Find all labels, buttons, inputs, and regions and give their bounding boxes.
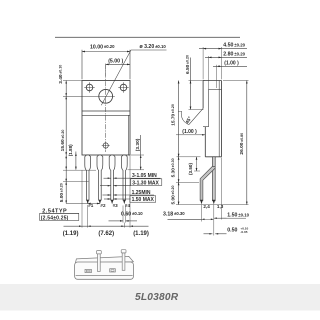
svg-text:(1.00 ): (1.00 ): [182, 129, 197, 135]
side view: straight lead extension line: [213, 204, 215, 235]
front view: tab/body junction line: [82, 114, 130, 116]
dimension (1.00) top: [216, 65, 218, 88]
side view: front face: [221, 81, 223, 157]
side view: bent lead (pins 2,4): [200, 166, 215, 200]
svg-text:5.00 ±0.20: 5.00 ±0.20: [59, 183, 65, 202]
svg-text:5L0380R: 5L0380R: [135, 292, 179, 303]
chamfer extension line: [178, 111, 182, 113]
front view: bottom locator circle: [103, 143, 108, 148]
svg-text:3.40 ±0.10: 3.40 ±0.10: [58, 65, 64, 84]
svg-text:3.18 ±0.30: 3.18 ±0.30: [163, 211, 185, 217]
svg-text:(3.50): (3.50): [188, 163, 193, 175]
bottom isometric view: pin A cap: [97, 251, 102, 254]
svg-text:(1.19): (1.19): [133, 231, 149, 237]
svg-text:(1.00 ): (1.00 ): [224, 61, 239, 67]
dimension 3.40 +-0.10 (top to hole center): [63, 80, 82, 82]
dimension 6.50 +-0.20 (top to step): [189, 80, 205, 82]
bottom isometric view: bottom lip line: [76, 275, 133, 277]
svg-text:2.54TYP: 2.54TYP: [42, 209, 67, 215]
svg-text:4.50 ±0.20: 4.50 ±0.20: [223, 43, 245, 49]
front view: center mounting hole: [99, 89, 113, 103]
side view: bottom edge: [205, 156, 221, 158]
lead pin 3 (front view): [109, 155, 115, 200]
dimension 2.54TYP / (2.54+-0.25) boxed lead pitch: [66, 203, 100, 205]
dimension 1.50 MAX (boxed): [104, 198, 111, 200]
svg-text:#2: #2: [100, 203, 106, 208]
svg-text:2.80 ±0.20: 2.80 ±0.20: [223, 51, 245, 57]
front view: hole horizontal centerline / extension: [63, 95, 115, 97]
svg-text:0.50: 0.50: [227, 228, 237, 234]
svg-text:3-1.05 MIN: 3-1.05 MIN: [132, 173, 157, 179]
lead pin 2 (front view): [97, 155, 103, 200]
dimension 10.00 +-0.20 (tab width): [81, 50, 83, 80]
bottom isometric view: recess 1: [85, 269, 91, 272]
svg-text:15.60 ±0.20: 15.60 ±0.20: [60, 130, 66, 152]
front view: tab bottom line: [82, 110, 130, 112]
front view: right mounting hole: [120, 84, 127, 91]
bottom isometric view: pin B cap: [121, 250, 126, 253]
bottom isometric view: pin A stem: [98, 254, 101, 272]
dimension (5.00) (hole center to edge): [105, 64, 107, 77]
side view: back face upper: [202, 81, 204, 109]
svg-text:15.70 ±0.20: 15.70 ±0.20: [170, 104, 176, 126]
side view: straight lead (pins 1,3): [212, 157, 215, 201]
svg-text:(2.54±0.25): (2.54±0.25): [41, 216, 69, 222]
lead pin 1 (front view): [85, 155, 91, 200]
side view: inner back edge: [208, 90, 210, 127]
svg-text:0.60 ±0.10: 0.60 ±0.10: [121, 211, 143, 217]
bottom isometric view: top face: [75, 256, 133, 262]
side view: inner front line: [218, 81, 220, 157]
side view: back face lower: [204, 127, 206, 157]
svg-text:6.50 ±0.20: 6.50 ±0.20: [185, 55, 191, 74]
svg-text:ø 3.20 ±0.10: ø 3.20 ±0.10: [140, 44, 167, 50]
svg-text:5.30 ±0.30: 5.30 ±0.30: [170, 158, 176, 177]
bottom isometric view: body slab: [75, 262, 134, 279]
side view: chamfer foot line: [203, 126, 209, 128]
bottom chained dimensions (1.19)(7.62)(1.19): [81, 170, 83, 227]
dimension 1.25MIN: [103, 194, 111, 196]
dimension 26.00 +-0.80 (overall height): [223, 80, 249, 82]
front view: package outline: [82, 81, 130, 156]
side view: step line: [209, 89, 222, 91]
svg-text:(7.62): (7.62): [98, 231, 114, 237]
svg-text:3-1.30 MAX: 3-1.30 MAX: [132, 180, 159, 186]
svg-text:(1.19): (1.19): [63, 231, 79, 237]
dimension 3-1.30 MAX (boxed): [100, 185, 111, 187]
svg-text:-0.05: -0.05: [240, 230, 247, 234]
front view: body inner right edge: [127, 115, 129, 155]
bottom isometric view: recess 2: [110, 269, 116, 272]
svg-text:45°: 45°: [185, 116, 194, 125]
svg-text:5.00 ±0.20: 5.00 ±0.20: [170, 185, 176, 204]
svg-text:1.50 MAX: 1.50 MAX: [132, 197, 155, 203]
side view: 45 deg chamfer line: [189, 108, 203, 124]
dimension 0.60 +-0.10 (lead tip width): [122, 206, 124, 223]
side view: bent lead extension line: [201, 204, 203, 221]
lead pin 4 (front view): [121, 155, 127, 200]
footer band: [0, 284, 320, 311]
svg-text:(5.00 ): (5.00 ): [108, 58, 123, 64]
front view: vertical centerline: [105, 64, 107, 152]
svg-text:1.50 ±0.10: 1.50 ±0.10: [227, 213, 249, 219]
dimension diameter 3.20 +-0.10 with leader: [101, 50, 131, 105]
side view: top edge: [203, 80, 221, 82]
front view: left mounting hole: [86, 84, 93, 91]
bottom isometric view: pin B stem: [122, 253, 125, 270]
svg-text:#3: #3: [113, 203, 119, 208]
45 degree chamfer annotation: [181, 111, 189, 124]
dimension 3-1.05 MIN (lead width): [104, 177, 111, 179]
svg-text:(1.88): (1.88): [68, 144, 73, 156]
dimension 4.50 +-0.20 (body thickness): [202, 47, 204, 79]
svg-text:26.00 ±0.80: 26.00 ±0.80: [239, 133, 245, 155]
dimension 2.80 +-0.20: [208, 56, 210, 90]
svg-text:10.00 ±0.20: 10.00 ±0.20: [90, 44, 115, 50]
dimension 15.70 +-0.20 (top to body bottom): [177, 156, 201, 158]
page divider rule at top: [55, 36, 240, 38]
dimension 5.00 +-0.20 (lead shoulder length, front): [63, 181, 89, 183]
svg-text:(3.30): (3.30): [135, 138, 141, 151]
